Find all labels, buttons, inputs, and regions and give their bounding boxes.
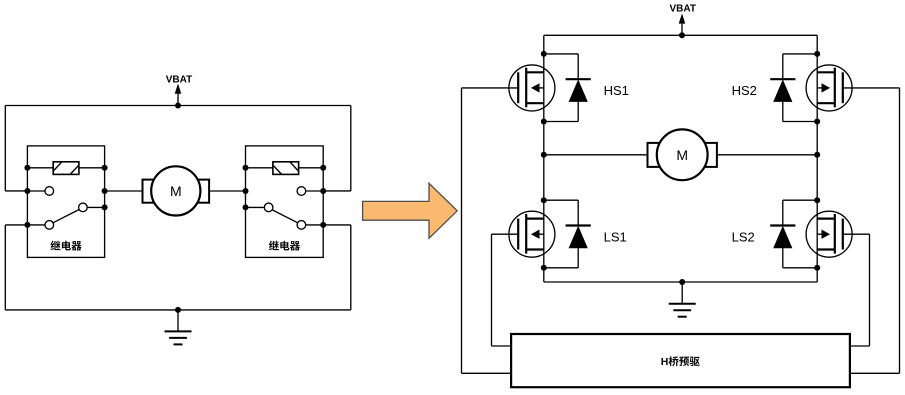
node source junction LS1 — [541, 265, 547, 271]
node common terminal K2 — [320, 222, 326, 228]
node source junction LS2 — [814, 265, 820, 271]
diode body diode of LS2 — [770, 200, 817, 268]
transistor LS1 NMOS — [509, 211, 555, 257]
svg-text:M: M — [676, 147, 688, 163]
power VBAT symbol (left circuit) — [166, 75, 192, 106]
svg-text:LS2: LS2 — [732, 229, 755, 244]
wire HS2 gate route — [850, 88, 900, 373]
transistor HS1 NMOS — [509, 65, 555, 111]
relay K1 coil — [53, 162, 79, 175]
wire coil right lead K1 — [79, 167, 105, 169]
wire bottom rail (right circuit) — [544, 281, 817, 283]
wire right rail upper (left circuit) — [323, 106, 351, 191]
wire coil left lead K2 — [246, 167, 273, 169]
ground (right circuit) — [669, 282, 696, 317]
wire gate lead HS2 — [842, 87, 900, 89]
wire coil right lead K2 — [299, 167, 324, 169]
wire left rail lower (left circuit) — [5, 225, 27, 310]
wire K1 to motor — [105, 190, 143, 192]
node ground junction (left circuit) — [175, 307, 181, 313]
relay K1 moving contact — [79, 203, 88, 212]
diode body diode of HS1 — [544, 54, 591, 122]
relay K2 common contact — [297, 221, 306, 230]
relay K2 fixed contact — [297, 187, 306, 196]
wire motor row left (right circuit) — [544, 154, 648, 156]
wire HS1 gate route — [462, 88, 512, 373]
node VBAT junction (right circuit) — [679, 32, 685, 38]
wire bottom rail (left circuit) — [5, 309, 351, 311]
label H桥预驱 — [661, 356, 700, 368]
wire LS1 gate route — [492, 234, 512, 346]
node ground junction (right circuit) — [679, 279, 685, 285]
wire gate lead LS2 — [842, 233, 870, 235]
motor M (left circuit) — [143, 166, 210, 215]
node source junction HS1 — [541, 119, 547, 125]
wire right rail lower (left circuit) — [323, 225, 351, 310]
svg-text:VBAT: VBAT — [166, 75, 192, 86]
wire motor row right (right circuit) — [717, 154, 817, 156]
node drain junction LS2 — [814, 197, 820, 203]
wire LS2 drain-source branch — [816, 155, 818, 282]
wire moving contact lead K1 — [87, 206, 104, 208]
relay K2 enclosure box — [246, 146, 324, 258]
node NC contact terminal K1 — [24, 188, 30, 194]
power VBAT symbol (right circuit) — [669, 4, 695, 36]
node coil left terminal K1 — [24, 165, 30, 171]
wire HS2 drain-source branch — [816, 35, 818, 155]
node coil left terminal K2 — [243, 165, 249, 171]
relay K1 common contact — [45, 221, 54, 230]
node motor row right junction — [814, 152, 820, 158]
label 继电器 (relay K1) — [50, 241, 60, 251]
node coil right terminal K2 — [320, 165, 326, 171]
node drain junction HS2 — [814, 51, 820, 57]
relay K2 moving contact — [264, 203, 273, 212]
node coil right terminal K1 — [102, 165, 108, 171]
gate driver H桥预驱 box — [511, 334, 850, 387]
relay K2 switch blade — [272, 210, 298, 223]
wire gate lead LS1 — [492, 233, 520, 235]
wire moving contact lead K2 — [246, 206, 265, 208]
relay K1 fixed contact — [45, 187, 54, 196]
transition arrow — [363, 183, 458, 238]
wire LS1 drain-source branch — [543, 155, 545, 282]
node motor feed terminal K2 — [243, 188, 249, 194]
node motor row left junction — [541, 152, 547, 158]
svg-text:VBAT: VBAT — [669, 4, 695, 15]
label 继电器 (relay K2) — [269, 241, 279, 251]
wire LS2 gate route — [850, 234, 870, 346]
wire motor to K2 — [209, 190, 245, 192]
relay K1 enclosure box — [27, 146, 104, 258]
node moving contact terminal K2 — [243, 204, 249, 210]
transistor HS2 NMOS — [806, 65, 852, 111]
node motor feed terminal K1 — [102, 188, 108, 194]
svg-text:LS1: LS1 — [604, 229, 627, 244]
svg-text:M: M — [170, 183, 182, 199]
motor M (right circuit) — [648, 129, 717, 180]
relay K1 switch blade — [53, 210, 79, 223]
wire gate lead HS1 — [462, 87, 520, 89]
transistor LS2 NMOS — [806, 211, 852, 257]
svg-text:H: H — [661, 356, 669, 368]
node moving contact terminal K1 — [102, 204, 108, 210]
wire NC contact lead K2 — [306, 190, 324, 192]
wire common lead K1 — [27, 224, 45, 226]
svg-text:HS2: HS2 — [732, 83, 757, 98]
node VBAT junction (left circuit) — [175, 103, 181, 109]
wire coil left lead K1 — [27, 167, 53, 169]
wire common lead K2 — [306, 224, 324, 226]
wire top rail (right circuit) — [544, 34, 817, 36]
node common terminal K1 — [24, 222, 30, 228]
wire top rail (left circuit) — [5, 105, 351, 107]
relay K2 coil — [273, 162, 299, 175]
wire HS1 drain-source branch — [543, 35, 545, 155]
ground (left circuit) — [165, 310, 192, 345]
node NC contact terminal K2 — [320, 188, 326, 194]
node drain junction LS1 — [541, 197, 547, 203]
node source junction HS2 — [814, 119, 820, 125]
diode body diode of HS2 — [770, 54, 817, 122]
node drain junction HS1 — [541, 51, 547, 57]
diode body diode of LS1 — [544, 200, 591, 268]
wire left rail upper (left circuit) — [5, 106, 27, 191]
svg-text:HS1: HS1 — [604, 83, 629, 98]
wire NC contact lead K1 — [27, 190, 45, 192]
